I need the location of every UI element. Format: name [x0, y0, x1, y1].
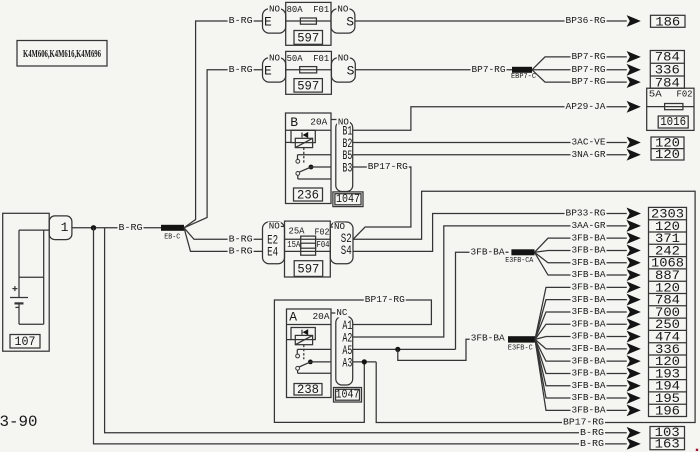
connector bracket E fuse 50A: [263, 53, 286, 82]
svg-text:3FB-BA: 3FB-BA: [572, 368, 606, 379]
label BP33-RG: [565, 208, 607, 219]
label 3FB-BA row 7: [571, 294, 607, 305]
svg-text:3FB-BA: 3FB-BA: [572, 257, 606, 268]
arrow 3AA-GR: [627, 220, 641, 232]
label BP36-RG: [565, 15, 607, 26]
junction node battery feed: [91, 225, 96, 230]
svg-text:15A: 15A: [287, 240, 300, 250]
svg-text:1016: 1016: [660, 116, 686, 129]
label BP17-RG at B3: [367, 161, 409, 172]
wire 3FB-BA row 2: [535, 238, 627, 252]
wire BP17-RG loop A1 to A3: [274, 300, 431, 422]
wire BP33-RG from S4: [353, 214, 627, 252]
svg-text:S4: S4: [341, 243, 352, 258]
label 3AC-VE: [571, 137, 607, 148]
label 3FB-BA row 9: [571, 318, 607, 329]
svg-text:F02: F02: [315, 228, 330, 238]
svg-text:E: E: [264, 14, 272, 29]
arrow BP7-RG 336: [627, 64, 641, 76]
svg-text:A3: A3: [342, 355, 352, 370]
svg-text:BP36-RG: BP36-RG: [566, 15, 606, 26]
label B-RG main: [118, 222, 144, 233]
arrow row 13 (193): [627, 368, 641, 380]
label BP7-RG 784 bottom: [571, 76, 607, 87]
connector bracket E2 E4: [263, 221, 285, 263]
svg-text:80A: 80A: [287, 5, 304, 15]
label 3FB-BA row 16: [571, 404, 607, 415]
svg-text:3FB-BA: 3FB-BA: [572, 343, 606, 354]
label 3FB-BA row 8: [571, 306, 607, 317]
svg-text:3FB-BA: 3FB-BA: [572, 232, 606, 243]
red scan mark: [696, 449, 698, 451]
wire 3FB-BA row 6: [535, 287, 627, 339]
page number 3-90: [0, 413, 38, 431]
svg-text:B-RG: B-RG: [229, 15, 253, 26]
wire A3 pin: [353, 361, 376, 363]
svg-text:BP7-RG: BP7-RG: [572, 64, 606, 75]
label BP7-RG 336: [571, 64, 607, 75]
svg-text:E: E: [264, 63, 272, 78]
label BP7-RG 784 top: [571, 51, 607, 62]
svg-text:B: B: [290, 115, 298, 130]
terminal box stack 2303-196: [649, 206, 687, 418]
label 3FB-BA row 10: [571, 331, 607, 342]
svg-text:B-RG: B-RG: [580, 438, 604, 449]
arrow row 15 (195): [627, 392, 641, 404]
arrow row 6 (120): [627, 281, 641, 293]
fuse F01 80A (597): [286, 2, 331, 45]
wire 3FB-BA row 12: [535, 339, 627, 361]
terminal boxes 103 163: [650, 425, 685, 452]
arrow B-RG 103: [627, 427, 641, 439]
connector bracket E fuse 80A: [263, 4, 286, 33]
svg-text:F04: F04: [317, 240, 330, 250]
wire AP29-JA from B1: [353, 107, 627, 131]
wire 3FB-BA row 16: [535, 339, 627, 410]
svg-text:E4: E4: [267, 245, 278, 260]
battery 107: [3, 213, 50, 351]
svg-text:F01: F01: [313, 54, 329, 64]
wire 3FB-BA riser to E3FB-CA: [456, 252, 509, 349]
svg-text:BP7-RG: BP7-RG: [472, 64, 506, 75]
svg-text:B-RG: B-RG: [229, 233, 253, 244]
svg-text:AP29-JA: AP29-JA: [566, 101, 606, 112]
label BP17-RG bottom: [562, 417, 605, 428]
svg-text:3FB-BA: 3FB-BA: [471, 333, 505, 344]
svg-text:BP17-RG: BP17-RG: [368, 161, 408, 172]
wire B-RG to 103 (right drop): [105, 228, 627, 433]
label 3FB-BA row 15: [571, 392, 607, 403]
svg-text:3FB-BA: 3FB-BA: [572, 331, 606, 342]
wire A5 pin: [353, 348, 456, 350]
svg-text:B-RG: B-RG: [229, 246, 253, 257]
svg-text:25A: 25A: [289, 227, 306, 237]
svg-text:B3: B3: [342, 160, 352, 175]
svg-text:3FB-BA: 3FB-BA: [572, 294, 606, 305]
svg-text:3FB-BA: 3FB-BA: [572, 392, 606, 403]
battery connector pin 1: [49, 216, 72, 240]
label BP17-RG loop: [364, 294, 406, 305]
svg-text:K4M606,K4M616,K4M696: K4M606,K4M616,K4M696: [23, 48, 101, 60]
arrow 3NA-GR: [627, 149, 641, 161]
connector box 1047 relay A: [334, 388, 362, 403]
wire 3FB-BA row 10: [535, 337, 627, 340]
fuse F02 25A / F04 15A (597): [285, 221, 331, 277]
svg-text:3FB-BA: 3FB-BA: [572, 404, 606, 415]
label 3FB-BA row 2: [571, 232, 607, 243]
wire 3FB-BA row 9: [535, 324, 627, 339]
arrow row 10 (474): [627, 331, 641, 343]
wire 3AC-VE from B2: [353, 142, 627, 144]
wire 3FB-BA row 4: [535, 252, 627, 262]
wire BP7-RG to splice: [355, 69, 512, 71]
splice EB-C: [161, 225, 184, 242]
svg-text:BP7-RG: BP7-RG: [572, 76, 606, 87]
svg-text:3AA-GR: 3AA-GR: [572, 220, 606, 231]
connector bracket NO relay B: [331, 118, 353, 192]
arrow row 12 (120): [627, 355, 641, 367]
arrow BP33-RG: [627, 208, 641, 220]
wire 3FB-BA row 5: [535, 252, 627, 275]
label 3FB-BA row 13: [571, 368, 607, 379]
wire 3FB-BA row 11: [535, 339, 627, 348]
label BP7-RG feed: [471, 64, 507, 75]
label 3FB-BA to E3FB-CA: [470, 246, 506, 257]
junction node A3: [362, 359, 367, 364]
arrow BP7-RG 784 top: [627, 51, 641, 63]
label 3FB-BA to E3FB-C: [470, 333, 506, 344]
svg-text:3FB-BA: 3FB-BA: [572, 245, 606, 256]
wire 3FB-BA row 15: [535, 339, 627, 398]
arrow row 2 (371): [627, 232, 641, 244]
arrow B-RG 163: [627, 438, 641, 450]
arrow row 14 (194): [627, 380, 641, 392]
wire B-RG riser to fuse F01 80A: [184, 21, 263, 228]
svg-text:597: 597: [297, 262, 319, 277]
svg-text:EBP7-C: EBP7-C: [511, 73, 536, 81]
label 3AA-GR: [571, 220, 607, 231]
svg-text:E3FB-CA: E3FB-CA: [505, 257, 534, 265]
wire 3FB-BA row 14: [535, 339, 627, 385]
arrow row 5 (887): [627, 269, 641, 281]
arrow row 16 (196): [627, 404, 641, 416]
arrow row 7 (784): [627, 294, 641, 306]
arrow 3AC-VE: [627, 137, 641, 149]
svg-text:107: 107: [15, 334, 36, 349]
svg-text:163: 163: [655, 437, 680, 452]
svg-text:597: 597: [297, 78, 319, 93]
svg-text:3FB-BA: 3FB-BA: [572, 380, 606, 391]
engine code label K4M606,K4M616,K4M696: [17, 41, 107, 67]
svg-text:1047: 1047: [336, 389, 360, 402]
splice EBP7-C: [511, 67, 536, 81]
svg-text:1047: 1047: [336, 193, 360, 206]
svg-text:B-RG: B-RG: [580, 427, 604, 438]
svg-text:186: 186: [655, 14, 680, 29]
wire 3FB-BA row 13: [535, 339, 627, 373]
arrow row 8 (700): [627, 306, 641, 318]
label AP29-JA: [565, 101, 607, 112]
wire 3FB-BA row 8: [535, 312, 627, 339]
fuse F01 50A (597): [286, 51, 332, 94]
arrow row 11 (336): [627, 343, 641, 355]
label B-RG E4: [228, 246, 254, 257]
svg-text:NO: NO: [269, 53, 280, 63]
terminal box 186: [651, 14, 686, 29]
connector bracket S fuse 80A: [331, 4, 355, 33]
label 3FB-BA row 4: [571, 257, 607, 268]
relay B 20A (236): [286, 113, 332, 204]
svg-text:236: 236: [297, 187, 319, 202]
connector bracket NC relay A: [331, 308, 353, 385]
svg-text:20A: 20A: [313, 312, 331, 322]
svg-text:5A: 5A: [649, 90, 663, 100]
svg-text:B-RG: B-RG: [229, 64, 253, 75]
wire BP17-RG S2 loop to A3: [353, 191, 695, 422]
splice E3FB-CA: [505, 249, 534, 264]
svg-text:3-90: 3-90: [0, 413, 38, 431]
junction node A5: [395, 347, 400, 352]
arrow BP7-RG 784 bottom: [627, 76, 641, 88]
svg-text:A: A: [289, 310, 297, 325]
terminal boxes 784 336 784: [650, 50, 684, 91]
wire B-RG to E4: [184, 228, 263, 252]
label 3FB-BA row 3: [571, 245, 607, 256]
label B-RG 163: [579, 438, 605, 449]
svg-text:BP7-RG: BP7-RG: [572, 51, 606, 62]
wire B-RG battery to EB-C: [72, 227, 161, 229]
arrow row 3 (242): [627, 245, 641, 257]
svg-text:120: 120: [655, 147, 680, 162]
svg-text:NO: NO: [269, 221, 280, 231]
arrow row 4 (1068): [627, 257, 641, 269]
svg-text:NO: NO: [338, 53, 349, 63]
wire BP36-RG: [355, 20, 627, 22]
svg-text:BP17-RG: BP17-RG: [365, 294, 405, 305]
wire B-RG riser to fuse F01 50A: [184, 70, 263, 228]
svg-text:1: 1: [61, 220, 69, 235]
svg-text:NO: NO: [337, 4, 348, 14]
fuse 5A F02 (1016): [647, 88, 694, 130]
arrow row 0 (2303): [627, 208, 641, 220]
svg-text:EB-C: EB-C: [164, 234, 180, 242]
svg-text:3AC-VE: 3AC-VE: [572, 137, 606, 148]
svg-text:F02: F02: [677, 90, 693, 100]
svg-text:NC: NC: [336, 308, 348, 318]
wire 3FB-BA row 3: [535, 250, 627, 252]
svg-text:E3FB-C: E3FB-C: [508, 344, 533, 352]
connector bracket S2 S4: [330, 222, 353, 264]
svg-text:B-RG: B-RG: [119, 222, 143, 233]
arrow AP29-JA: [627, 101, 641, 113]
wire B-RG to E2: [184, 228, 263, 240]
connector box 1047 relay B: [333, 192, 363, 207]
wire BP7-RG to 784 top: [532, 57, 627, 70]
svg-text:F01: F01: [313, 5, 329, 15]
wire 3FB-BA row 7: [535, 300, 627, 340]
svg-text:3FB-BA: 3FB-BA: [572, 269, 606, 280]
wire BP7-RG to 784 bottom: [532, 70, 627, 82]
arrow BP36-RG: [627, 15, 641, 27]
label B-RG 103: [579, 427, 605, 438]
label 3FB-BA row 14: [571, 380, 607, 391]
svg-text:S: S: [346, 14, 354, 29]
arrow row 9 (250): [627, 318, 641, 330]
svg-text:BP33-RG: BP33-RG: [566, 208, 606, 219]
svg-text:3FB-BA: 3FB-BA: [572, 318, 606, 329]
relay A 20A (238): [287, 309, 332, 398]
svg-text:3FB-BA: 3FB-BA: [471, 246, 505, 257]
svg-text:597: 597: [297, 30, 319, 45]
label B-RG fuse1: [228, 15, 254, 26]
svg-text:3FB-BA: 3FB-BA: [572, 355, 606, 366]
label 3FB-BA row 5: [571, 269, 607, 280]
splice E3FB-C: [508, 336, 535, 352]
label 3FB-BA row 11: [571, 343, 607, 354]
svg-text:238: 238: [297, 382, 319, 397]
connector bracket S fuse 50A: [331, 53, 355, 82]
svg-text:3NA-GR: 3NA-GR: [572, 149, 606, 160]
label B-RG E2: [228, 233, 254, 244]
svg-text:NO: NO: [269, 4, 280, 14]
wire 3FB-BA jog to E3FB-C: [398, 339, 505, 360]
svg-text:50A: 50A: [287, 54, 304, 64]
label 3FB-BA row 12: [571, 355, 607, 366]
wire A2 to 3AA-GR: [353, 226, 627, 337]
svg-text:S: S: [347, 63, 355, 78]
svg-text:3FB-BA: 3FB-BA: [572, 306, 606, 317]
arrow row 1 (120): [627, 220, 641, 232]
svg-text:196: 196: [655, 403, 680, 418]
svg-text:20A: 20A: [310, 118, 328, 128]
svg-text:3FB-BA: 3FB-BA: [572, 281, 606, 292]
label 3FB-BA row 6: [571, 281, 607, 292]
wire BP17-RG B3 to S2: [353, 167, 411, 239]
wire 3NA-GR from B5: [353, 154, 627, 156]
label 3NA-GR: [571, 149, 607, 160]
label B-RG fuse2: [228, 64, 254, 75]
terminal boxes 120 120: [651, 136, 684, 163]
wire BP7-RG to 336: [532, 69, 627, 71]
wire B-RG to 163 (left drop): [94, 228, 627, 444]
